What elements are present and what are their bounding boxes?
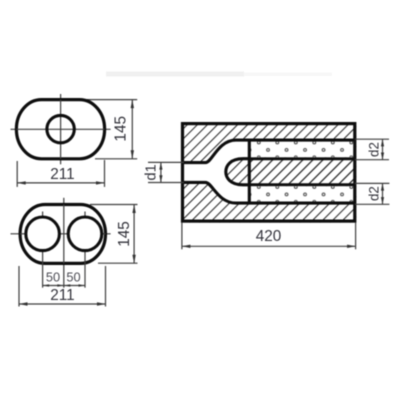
pipe joint line (248, 139, 251, 205)
extension line 145 top (78, 99, 137, 101)
circle centerline left (42, 212, 44, 288)
faint scan smudge top (106, 72, 244, 77)
d1 arrows (159, 162, 162, 169)
centre baffle wedge (hatched) (226, 159, 355, 185)
d2 bottom arrows (381, 183, 384, 190)
d2 bottom dimension line (382, 183, 384, 204)
centerline vertical (60, 94, 62, 164)
d2 top arrows (381, 139, 384, 146)
svg-text:211: 211 (50, 287, 74, 304)
svg-text:145: 145 (116, 221, 133, 247)
top perforated pipe interior (250, 142, 355, 158)
body outline (183, 124, 355, 222)
extension 145 bottom (98, 262, 138, 264)
extension line 145 bottom (95, 158, 137, 160)
d2 top extensions (355, 138, 389, 140)
outlet circle right (68, 217, 102, 251)
extension line 211 right (104, 160, 106, 187)
d1 extension top (148, 161, 184, 163)
bottom perforated pipe interior (250, 186, 355, 201)
svg-text:145: 145 (113, 116, 130, 142)
inlet pipe circle (47, 115, 74, 142)
d2 bottom extensions (355, 182, 390, 184)
d1 extension bottom (148, 182, 184, 184)
dimension line 145 (131, 100, 133, 159)
body hatched interior (181, 122, 356, 223)
extension 211 right (105, 266, 107, 307)
centerlines redrawn inside oval (16, 128, 104, 130)
420 extension left (181, 223, 183, 250)
svg-text:50: 50 (46, 269, 60, 284)
dimension line 145 (133, 205, 135, 264)
svg-text:d2: d2 (367, 142, 382, 157)
420 arrows (182, 245, 191, 248)
extension 211 left (18, 266, 20, 307)
dimension line 50/50 (43, 285, 85, 287)
arrow down (132, 255, 135, 264)
dimension line 211 (17, 182, 104, 184)
arrow 211 left (17, 181, 26, 184)
centerline horizontal (11, 233, 111, 235)
d2 top dimension line (382, 139, 384, 160)
arrow right (97, 302, 106, 305)
svg-text:211: 211 (50, 166, 74, 183)
Y-pipe top wall (182, 140, 355, 163)
dimension line 211 (19, 303, 106, 305)
centerline horizontal (11, 128, 111, 130)
oval shell outline (20, 205, 105, 264)
Y-pipe bottom wall (182, 182, 355, 203)
arrow left (19, 302, 28, 305)
420 extension right (355, 223, 357, 250)
extension line 211 left (16, 161, 18, 187)
arrow 145 up (131, 100, 134, 109)
svg-text:50: 50 (66, 269, 80, 284)
Y-pipe white interior (182, 140, 250, 203)
outlet circle left (26, 217, 60, 251)
centerline vertical middle (63, 198, 65, 288)
circle centerline right (84, 212, 86, 288)
svg-text:420: 420 (256, 228, 282, 245)
centerlines inside (20, 233, 105, 235)
arrow 145 down (131, 150, 134, 159)
d1 dimension line (160, 162, 162, 182)
svg-text:d1: d1 (144, 164, 160, 180)
extension 145 top (90, 204, 138, 206)
oval shell outline (16, 100, 104, 159)
420 dimension line (182, 245, 356, 247)
arrow up (132, 205, 135, 214)
svg-text:d2: d2 (367, 186, 382, 201)
arrows 50/50 (43, 284, 50, 287)
arrow 211 right (96, 181, 105, 184)
